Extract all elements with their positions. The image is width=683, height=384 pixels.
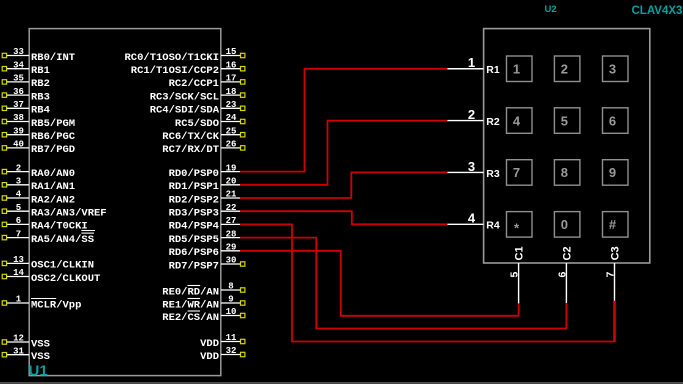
svg-text:6: 6: [609, 113, 616, 128]
pin 10 RE2/CS/AN (right): [162, 307, 245, 324]
svg-text:7: 7: [16, 229, 21, 239]
svg-text:RE1/WR/AN: RE1/WR/AN: [162, 299, 219, 311]
keypad button *: [507, 212, 533, 238]
svg-text:C2: C2: [561, 246, 573, 260]
pin 25 RC6/TX/CK (right): [162, 126, 245, 143]
pin 16 RC1/T1OSI/CCP2 (right): [131, 60, 245, 77]
svg-text:CLAV4X3: CLAV4X3: [632, 5, 683, 17]
svg-text:RD5/PSP5: RD5/PSP5: [169, 234, 219, 246]
svg-text:38: 38: [13, 113, 24, 123]
svg-text:#: #: [609, 217, 617, 232]
pin 22 RD3/PSP3 (right): [169, 203, 241, 220]
svg-text:1: 1: [513, 62, 520, 77]
svg-text:RC7/RX/DT: RC7/RX/DT: [162, 144, 219, 156]
keypad pin 7 column C3: [605, 246, 622, 300]
svg-text:RA5/AN4/SS: RA5/AN4/SS: [31, 234, 94, 246]
svg-text:RC5/SDO: RC5/SDO: [175, 118, 219, 130]
svg-text:MCLR/Vpp: MCLR/Vpp: [31, 299, 81, 311]
keypad pin 2 row R2: [448, 107, 500, 128]
svg-text:11: 11: [226, 333, 237, 343]
keypad button 6: [603, 108, 629, 134]
svg-text:4: 4: [16, 190, 22, 200]
keypad pin 4 row R4: [448, 211, 500, 232]
pin 7 RA5/AN4/SS (left): [2, 229, 94, 246]
wire RD5 pin28 to keypad C2: [240, 238, 566, 329]
pin 14 OSC2/CLKOUT (left): [2, 268, 100, 285]
pin 40 RB7/PGD (left): [2, 140, 75, 157]
pin 6 RA4/T0CKI (left): [2, 216, 88, 233]
svg-text:3: 3: [609, 62, 616, 77]
pin 34 RB1 (left): [2, 60, 50, 77]
pin 18 RC3/SCK/SCL (right): [150, 87, 245, 104]
svg-text:39: 39: [13, 126, 24, 136]
svg-text:VSS: VSS: [31, 351, 50, 363]
svg-text:RA4/T0CKI: RA4/T0CKI: [31, 221, 88, 233]
svg-text:OSC2/CLKOUT: OSC2/CLKOUT: [31, 273, 100, 285]
pin 15 RC0/T1OSO/T1CKI (right): [124, 47, 244, 64]
svg-text:C3: C3: [610, 246, 622, 260]
svg-text:RB0/INT: RB0/INT: [31, 52, 75, 64]
keypad U2 body: [484, 29, 650, 263]
pin 33 RB0/INT (left): [2, 47, 75, 64]
svg-text:30: 30: [226, 256, 237, 266]
pin 32 VDD (right): [200, 346, 245, 363]
svg-text:7: 7: [605, 272, 617, 278]
svg-text:28: 28: [226, 229, 237, 239]
pin 17 RC2/CCP1 (right): [169, 74, 245, 91]
IC U1 body (PIC16F877): [29, 29, 221, 376]
svg-text:RB4: RB4: [31, 105, 50, 117]
pin 20 RD1/PSP1 (right): [169, 177, 241, 194]
keypad pin 6 column C2: [556, 246, 573, 303]
svg-text:3: 3: [16, 177, 21, 187]
svg-text:U2: U2: [545, 4, 557, 15]
svg-text:32: 32: [226, 346, 237, 356]
pin 35 RB2 (left): [2, 74, 50, 91]
svg-text:22: 22: [226, 203, 237, 213]
svg-text:6: 6: [556, 272, 568, 278]
svg-text:RC0/T1OSO/T1CKI: RC0/T1OSO/T1CKI: [124, 52, 219, 64]
svg-text:RB2: RB2: [31, 78, 50, 90]
svg-text:R1: R1: [486, 64, 500, 76]
pin 3 RA1/AN1 (left): [2, 177, 75, 194]
svg-text:1: 1: [468, 55, 475, 70]
svg-text:14: 14: [13, 268, 24, 278]
svg-text:RA3/AN3/VREF: RA3/AN3/VREF: [31, 208, 107, 220]
svg-text:37: 37: [13, 100, 24, 110]
svg-text:RE0/RD/AN: RE0/RD/AN: [162, 286, 219, 298]
svg-text:R4: R4: [486, 220, 500, 232]
svg-text:RA0/AN0: RA0/AN0: [31, 168, 75, 180]
pin 1 MCLR/Vpp (left): [2, 295, 81, 312]
svg-text:RD2/PSP2: RD2/PSP2: [169, 194, 219, 206]
pin 12 VSS (left): [2, 334, 50, 351]
svg-text:RB5/PGM: RB5/PGM: [31, 118, 75, 130]
svg-text:C1: C1: [514, 246, 526, 260]
svg-text:VDD: VDD: [200, 338, 219, 350]
keypad button 3: [603, 56, 629, 82]
wire RD4 pin27 to keypad C3: [240, 224, 615, 341]
wire RD6 pin29 to keypad C1: [240, 251, 519, 316]
svg-text:23: 23: [226, 100, 237, 110]
svg-text:RC2/CCP1: RC2/CCP1: [169, 78, 219, 90]
svg-text:OSC1/CLKIN: OSC1/CLKIN: [31, 260, 94, 272]
svg-text:40: 40: [13, 140, 24, 150]
svg-text:9: 9: [228, 295, 233, 305]
keypad button 8: [554, 160, 580, 186]
svg-text:RB6/PGC: RB6/PGC: [31, 131, 76, 143]
overline artifact above RA5/AN4/SS: [81, 230, 95, 232]
svg-text:VSS: VSS: [31, 338, 50, 350]
pin 27 RD4/PSP4 (right): [169, 216, 241, 233]
svg-text:29: 29: [226, 243, 237, 253]
pin 39 RB6/PGC (left): [2, 126, 76, 143]
svg-text:8: 8: [228, 282, 233, 292]
svg-text:36: 36: [13, 87, 24, 97]
window bottom border: [0, 382, 683, 384]
svg-text:5: 5: [561, 113, 568, 128]
pin 26 RC7/RX/DT (right): [162, 140, 245, 157]
svg-text:4: 4: [513, 113, 521, 128]
svg-text:10: 10: [226, 307, 237, 317]
svg-text:26: 26: [226, 140, 237, 150]
keypad button 7: [507, 160, 533, 186]
svg-text:18: 18: [226, 87, 237, 97]
svg-text:RD6/PSP6: RD6/PSP6: [169, 247, 219, 259]
svg-text:16: 16: [226, 60, 237, 70]
svg-text:19: 19: [226, 163, 237, 173]
pin 13 OSC1/CLKIN (left): [2, 255, 94, 272]
pin 23 RC4/SDI/SDA (right): [150, 100, 245, 117]
pin 5 RA3/AN3/VREF (left): [2, 203, 106, 220]
pin 37 RB4 (left): [2, 100, 50, 117]
svg-text:RD4/PSP4: RD4/PSP4: [169, 221, 219, 233]
svg-text:RB1: RB1: [31, 65, 50, 77]
keypad button 4: [507, 108, 533, 134]
wire RD0 pin19 to keypad R1: [240, 69, 448, 172]
keypad button 5: [554, 108, 580, 134]
svg-text:2: 2: [468, 107, 475, 122]
svg-text:33: 33: [13, 47, 24, 57]
svg-text:RD7/PSP7: RD7/PSP7: [169, 260, 219, 272]
pin 9 RE1/WR/AN (right): [162, 295, 245, 312]
svg-text:9: 9: [609, 165, 616, 180]
keypad pin 1 row R1: [448, 55, 500, 76]
keypad button 0: [554, 212, 580, 238]
pin 28 RD5/PSP5 (right): [169, 229, 241, 246]
svg-text:2: 2: [16, 163, 21, 173]
pin 38 RB5/PGM (left): [2, 113, 75, 130]
svg-text:17: 17: [226, 74, 237, 84]
svg-text:25: 25: [226, 126, 237, 136]
pin 4 RA2/AN2 (left): [2, 190, 75, 207]
pin 36 RB3 (left): [2, 87, 50, 104]
svg-text:R3: R3: [486, 168, 500, 180]
keypad pin 3 row R3: [448, 159, 500, 180]
svg-text:R2: R2: [486, 116, 500, 128]
svg-text:RB7/PGD: RB7/PGD: [31, 144, 75, 156]
svg-text:12: 12: [13, 334, 24, 344]
pin 11 VDD (right): [200, 333, 245, 350]
keypad button 2: [554, 56, 580, 82]
svg-text:6: 6: [16, 216, 21, 226]
svg-text:RD3/PSP3: RD3/PSP3: [169, 208, 219, 220]
svg-text:2: 2: [561, 62, 568, 77]
svg-text:RE2/CS/AN: RE2/CS/AN: [162, 312, 219, 324]
svg-text:RA2/AN2: RA2/AN2: [31, 194, 75, 206]
svg-text:U1: U1: [29, 363, 48, 380]
svg-text:5: 5: [509, 272, 521, 278]
keypad button 9: [603, 160, 629, 186]
svg-text:RA1/AN1: RA1/AN1: [31, 181, 75, 193]
svg-text:15: 15: [226, 47, 237, 57]
keypad button #: [603, 212, 629, 238]
pin 19 RD0/PSP0 (right): [169, 163, 241, 180]
wire RD1 pin20 to keypad R2: [240, 121, 448, 185]
svg-text:RC3/SCK/SCL: RC3/SCK/SCL: [150, 91, 219, 103]
svg-text:21: 21: [226, 190, 237, 200]
pin 2 RA0/AN0 (left): [2, 163, 75, 180]
svg-text:VDD: VDD: [200, 351, 219, 363]
svg-text:RC6/TX/CK: RC6/TX/CK: [162, 131, 219, 143]
pin 31 VSS (left): [2, 346, 50, 363]
svg-text:34: 34: [13, 60, 24, 70]
pin 29 RD6/PSP6 (right): [169, 243, 241, 260]
wire keypad C3 vertical (thick): [613, 301, 616, 342]
pin 30 RD7/PSP7 (right): [169, 256, 245, 273]
svg-text:RD1/PSP1: RD1/PSP1: [169, 181, 219, 193]
svg-text:35: 35: [13, 74, 24, 84]
svg-text:0: 0: [561, 217, 568, 232]
svg-text:27: 27: [226, 216, 237, 226]
svg-text:31: 31: [13, 346, 24, 356]
pin 24 RC5/SDO (right): [175, 113, 245, 130]
svg-text:RB3: RB3: [31, 91, 50, 103]
wire RD3 pin22 to keypad R4: [240, 211, 448, 224]
keypad pin 5 column C1: [509, 246, 526, 303]
svg-text:13: 13: [13, 255, 24, 265]
svg-text:RD0/PSP0: RD0/PSP0: [169, 168, 219, 180]
svg-text:RC4/SDI/SDA: RC4/SDI/SDA: [150, 105, 220, 117]
svg-text:4: 4: [468, 211, 476, 226]
keypad button 1: [507, 56, 533, 82]
svg-text:8: 8: [561, 165, 568, 180]
svg-text:1: 1: [16, 295, 22, 305]
wire RD2 pin21 to keypad R3: [240, 172, 448, 198]
svg-text:RC1/T1OSI/CCP2: RC1/T1OSI/CCP2: [131, 65, 219, 77]
pin 21 RD2/PSP2 (right): [169, 190, 241, 207]
svg-text:3: 3: [468, 159, 475, 174]
svg-text:24: 24: [226, 113, 237, 123]
svg-text:20: 20: [226, 177, 237, 187]
svg-text:5: 5: [16, 203, 21, 213]
svg-text:7: 7: [513, 165, 520, 180]
pin 8 RE0/RD/AN (right): [162, 282, 245, 299]
